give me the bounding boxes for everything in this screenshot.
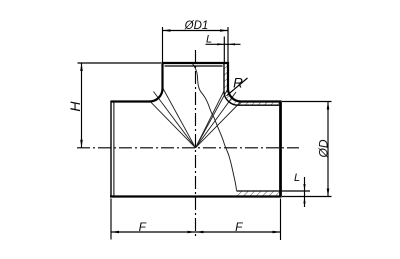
svg-text:F: F	[139, 220, 147, 234]
svg-text:F: F	[235, 220, 243, 234]
svg-text:ØD1: ØD1	[184, 20, 209, 32]
svg-text:L: L	[294, 172, 300, 184]
svg-text:H: H	[67, 101, 83, 112]
svg-text:L: L	[206, 34, 212, 46]
svg-text:R: R	[233, 76, 243, 91]
svg-text:ØD: ØD	[316, 139, 330, 158]
